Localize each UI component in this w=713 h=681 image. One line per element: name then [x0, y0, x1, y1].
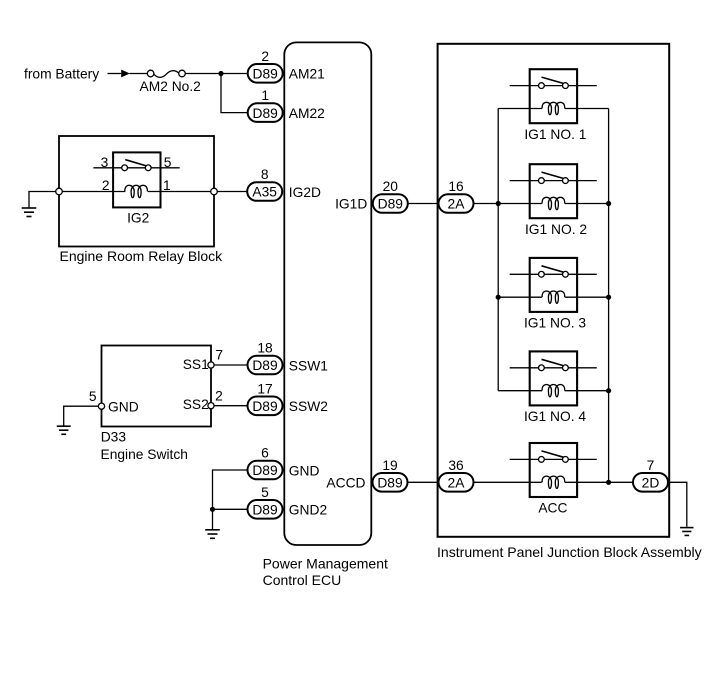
node right bus IG1 NO.3: [606, 295, 611, 300]
svg-text:D89: D89: [252, 463, 278, 478]
svg-text:2: 2: [261, 49, 269, 64]
svg-text:AM21: AM21: [289, 67, 325, 82]
svg-text:17: 17: [257, 381, 272, 396]
svg-text:Control ECU: Control ECU: [263, 572, 342, 588]
svg-text:20: 20: [383, 179, 399, 194]
svg-text:2A: 2A: [448, 476, 466, 491]
svg-text:7: 7: [215, 347, 223, 362]
relay IG1 NO.1: [530, 69, 577, 123]
wire D89 pin 20 to 2A pin 16: [408, 203, 439, 205]
relay ACC: [530, 443, 577, 497]
relay IG1 NO.4: [530, 351, 577, 405]
svg-text:16: 16: [448, 179, 464, 194]
svg-text:ACC: ACC: [538, 501, 567, 516]
svg-text:SSW1: SSW1: [289, 358, 328, 373]
wire relay block left to relay IG2 coil: [62, 191, 125, 193]
svg-text:AM22: AM22: [289, 106, 325, 121]
Instrument Panel Junction Block Assembly box: [438, 44, 670, 537]
svg-text:SS1: SS1: [183, 357, 209, 372]
svg-text:IG1 NO. 3: IG1 NO. 3: [524, 316, 586, 331]
connector D89 pin 2 (AM21): [248, 64, 283, 83]
svg-text:19: 19: [382, 458, 398, 473]
connector A35 pin 8 (IG2D): [247, 182, 282, 201]
wire ground to relay block: [29, 192, 56, 208]
Engine Room Relay Block box: [59, 136, 214, 247]
wire IG1 NO.2 coil to right bus: [565, 203, 609, 205]
svg-text:5: 5: [164, 155, 172, 170]
connector D89 pin 20 (IG1D): [373, 194, 408, 213]
svg-text:36: 36: [448, 458, 464, 473]
wire D89 pin 19 to 2A pin 36: [408, 481, 439, 483]
svg-text:D89: D89: [377, 476, 403, 491]
svg-text:IG1 NO. 2: IG1 NO. 2: [525, 222, 587, 237]
op ECU box Power Management Control ECU: [284, 42, 371, 545]
wire from Battery lead: [108, 73, 122, 75]
wire IG1 NO.3 coil to right bus: [565, 296, 609, 298]
svg-text:1: 1: [261, 88, 269, 103]
svg-text:8: 8: [261, 167, 269, 182]
svg-text:Engine Room Relay Block: Engine Room Relay Block: [60, 248, 224, 264]
wire IG1 NO.1 coil to right bus: [565, 108, 609, 110]
connector 2A pin 36: [439, 473, 474, 492]
wire left bus to IG1 NO.3 coil: [498, 296, 542, 298]
svg-text:D89: D89: [378, 197, 404, 212]
wire IG1 NO.4 coil to right bus: [565, 390, 609, 392]
svg-text:2A: 2A: [448, 197, 466, 212]
pin 2 circle SS2: [208, 403, 214, 409]
svg-text:2D: 2D: [642, 476, 660, 491]
ground (engine room relay block): [22, 207, 37, 209]
svg-text:D89: D89: [252, 503, 278, 518]
wire fuse to connector D89 pin 2: [185, 73, 247, 75]
svg-text:6: 6: [261, 446, 269, 461]
svg-text:18: 18: [257, 341, 273, 356]
svg-text:D89: D89: [252, 399, 278, 414]
svg-text:D89: D89: [252, 358, 278, 373]
svg-text:ACCD: ACCD: [326, 476, 365, 491]
connector D89 pin 19 (ACCD): [373, 473, 408, 492]
connector D89 pin 6 (GND): [248, 461, 283, 480]
svg-text:Engine Switch: Engine Switch: [101, 447, 188, 462]
bus wire left: [497, 109, 499, 391]
svg-text:IG1 NO. 4: IG1 NO. 4: [524, 409, 586, 424]
node right bus ACC: [606, 480, 611, 485]
svg-text:SSW2: SSW2: [289, 399, 328, 414]
arrow battery feed: [121, 70, 130, 78]
svg-text:7: 7: [647, 458, 655, 473]
wire 2A pin 36 to relay ACC coil: [474, 481, 542, 483]
wire relay IG2 coil to relay block right: [148, 191, 211, 193]
wire left bus to IG1 NO.1 coil: [498, 108, 542, 110]
svg-text:3: 3: [101, 155, 109, 170]
svg-text:IG2D: IG2D: [289, 185, 321, 200]
node ECU ground junction: [210, 507, 215, 512]
terminal circle relay block right: [211, 188, 218, 195]
node right bus IG1 NO.4: [606, 388, 611, 393]
node battery split: [218, 71, 223, 76]
wire 2D to ground: [668, 482, 687, 527]
wire relay ACC coil to connector 2D: [565, 481, 633, 483]
wire SS1 to connector D89 pin 18: [214, 364, 248, 366]
svg-text:AM2 No.2: AM2 No.2: [140, 79, 201, 94]
svg-text:GND: GND: [108, 399, 139, 414]
svg-text:2: 2: [215, 389, 223, 404]
connector D89 pin 18 (SSW1): [248, 356, 283, 375]
connector D89 pin 17 (SSW2): [248, 397, 283, 416]
svg-text:GND: GND: [289, 463, 320, 478]
wire 2A pin 16 to relay IG1 NO.2 coil: [474, 203, 542, 205]
svg-text:IG1 NO. 1: IG1 NO. 1: [524, 127, 586, 142]
svg-text:D33: D33: [101, 430, 127, 445]
ground (ECU GND): [205, 529, 220, 531]
wire GND to ground (engine switch): [64, 406, 99, 426]
relay IG1 NO.3: [530, 258, 577, 312]
wire node to connector D89 pin 1: [221, 74, 248, 113]
wire GND2 to junction: [213, 508, 248, 510]
connector D89 pin 5 (GND2): [248, 500, 283, 519]
wire SS2 to connector D89 pin 17: [214, 405, 248, 407]
wire GND to junction: [213, 470, 248, 530]
node right bus IG1 NO.2: [606, 201, 611, 206]
connector 2A pin 16: [439, 194, 474, 213]
relay IG2: [113, 152, 160, 207]
node left bus IG1 NO.2: [496, 201, 501, 206]
connector D89 pin 1 (AM22): [248, 103, 283, 122]
pin 5 circle GND: [98, 403, 104, 409]
svg-text:IG2: IG2: [127, 210, 149, 225]
relay IG1 NO.2: [530, 164, 577, 218]
connector 2D pin 7: [633, 473, 668, 492]
fuse AM2 No.2: [147, 70, 154, 77]
svg-text:GND2: GND2: [289, 503, 327, 518]
terminal circle relay block left: [56, 188, 63, 195]
svg-text:A35: A35: [252, 185, 277, 200]
svg-text:5: 5: [261, 485, 269, 500]
Engine Switch box D33: [102, 346, 212, 427]
svg-text:D89: D89: [253, 67, 279, 82]
node left bus IG1 NO.3: [496, 295, 501, 300]
svg-text:Instrument Panel Junction Bloc: Instrument Panel Junction Block Assembly: [437, 544, 702, 560]
svg-text:D89: D89: [253, 106, 279, 121]
ground (junction block right): [680, 527, 693, 529]
svg-text:IG1D: IG1D: [335, 197, 367, 212]
ground (engine switch): [57, 425, 71, 427]
pin 7 circle SS1: [208, 362, 214, 368]
svg-text:Power Management: Power Management: [263, 555, 388, 571]
svg-text:5: 5: [89, 389, 97, 404]
bus wire right: [608, 109, 610, 483]
svg-text:2: 2: [102, 178, 110, 193]
svg-text:SS2: SS2: [183, 397, 209, 412]
wire relay block to connector A35: [217, 191, 247, 193]
svg-text:from Battery: from Battery: [24, 66, 99, 81]
wire left bus to IG1 NO.4 coil: [498, 390, 542, 392]
